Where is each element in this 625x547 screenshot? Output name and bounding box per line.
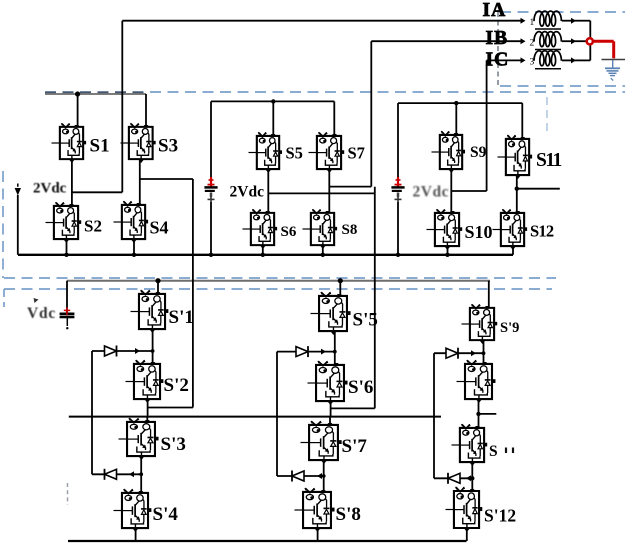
svg-text:2Vdc: 2Vdc bbox=[413, 184, 449, 201]
svg-text:S'5: S'5 bbox=[353, 310, 378, 331]
svg-text:IA: IA bbox=[483, 0, 507, 21]
svg-text:S12: S12 bbox=[530, 222, 554, 241]
svg-text:2: 2 bbox=[530, 38, 535, 48]
svg-text:S: S bbox=[489, 443, 498, 460]
svg-text:3: 3 bbox=[530, 58, 535, 68]
svg-text:1: 1 bbox=[530, 18, 535, 28]
svg-text:S3: S3 bbox=[158, 136, 178, 157]
svg-text:S2: S2 bbox=[84, 217, 102, 236]
svg-text:2Vdc: 2Vdc bbox=[230, 184, 265, 201]
svg-text:S1: S1 bbox=[90, 136, 110, 157]
svg-text:S7: S7 bbox=[348, 144, 365, 163]
svg-text:S6: S6 bbox=[281, 224, 297, 240]
svg-text:S'1: S'1 bbox=[169, 307, 194, 328]
svg-text:S'8: S'8 bbox=[336, 504, 361, 525]
svg-text:S'3: S'3 bbox=[161, 434, 186, 455]
svg-text:IC: IC bbox=[486, 50, 510, 71]
svg-text:S10: S10 bbox=[465, 222, 493, 242]
svg-text:Vdc: Vdc bbox=[27, 305, 56, 322]
svg-text:IB: IB bbox=[486, 28, 509, 49]
svg-text:S5: S5 bbox=[286, 144, 303, 163]
svg-text:S'4: S'4 bbox=[153, 504, 179, 525]
svg-text:S9: S9 bbox=[470, 144, 487, 161]
svg-text:S'6: S'6 bbox=[348, 377, 373, 398]
svg-text:S8: S8 bbox=[342, 222, 358, 238]
svg-text:2Vdc: 2Vdc bbox=[33, 181, 67, 197]
svg-text:S'2: S'2 bbox=[164, 375, 189, 396]
svg-text:S'12: S'12 bbox=[484, 506, 516, 526]
svg-text:S4: S4 bbox=[150, 218, 169, 238]
svg-text:S11: S11 bbox=[536, 150, 562, 171]
svg-text:S'9: S'9 bbox=[500, 320, 519, 336]
svg-text:S'7: S'7 bbox=[342, 436, 368, 457]
